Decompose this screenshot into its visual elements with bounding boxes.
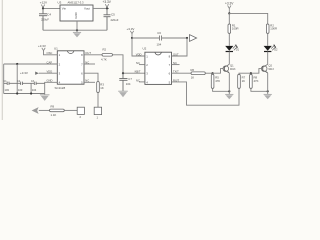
wire to R1 (228, 13, 230, 24)
node dot (131, 37, 133, 39)
pin 7 NC stub (172, 64, 180, 66)
wire VDD drop (132, 38, 145, 56)
wire LED rail (229, 13, 267, 24)
svg-text:1K: 1K (100, 86, 104, 90)
resistor R2 (101, 48, 113, 62)
svg-text:GND: GND (47, 79, 53, 83)
node dot (250, 72, 252, 74)
svg-text:1K: 1K (242, 79, 246, 83)
wire D1 to Q1 collector (228, 52, 230, 65)
svg-text:NC: NC (85, 60, 89, 64)
svg-text:RX/T: RX/T (173, 78, 179, 82)
resistor R5 (pull-down) (211, 74, 220, 88)
svg-text:103: 103 (5, 88, 10, 92)
node A (16, 63, 18, 65)
svg-text:AMS1117-3.3: AMS1117-3.3 (68, 0, 85, 4)
wire OUT pin to R2 (84, 54, 102, 56)
svg-text:VDD: VDD (47, 70, 53, 74)
wire GND pin to ground (45, 82, 58, 93)
wire R9 to pad 2 (64, 109, 77, 111)
svg-text:+3.3V: +3.3V (20, 71, 28, 75)
node dot at C5 top (106, 7, 108, 9)
resistor R9 (50, 105, 65, 118)
power port +3.3V (regulator output) (103, 0, 112, 8)
svg-text:+3.3V: +3.3V (225, 1, 234, 5)
power port +3.3V (LED rail) (225, 1, 234, 13)
node dot at C4 top (42, 7, 44, 9)
svg-text:R6: R6 (191, 68, 195, 72)
wire R1 to D1 (228, 33, 230, 45)
svg-text:C7: C7 (128, 77, 132, 81)
node dot regulator gnd (76, 29, 78, 31)
ground (bottom-left) (40, 94, 50, 101)
wire Vout to +3.3V node (93, 7, 109, 9)
svg-text:NC: NC (173, 61, 177, 65)
capacitor C1 (4, 82, 18, 85)
resistor R3 (97, 82, 105, 93)
svg-text:R9: R9 (51, 105, 55, 109)
wire R7 top to base (239, 69, 262, 75)
pin 2 NC stub (139, 64, 145, 66)
svg-text:OUT: OUT (173, 52, 179, 56)
svg-text:SC1128: SC1128 (55, 86, 66, 90)
capacitor C7 (to gnd) (119, 73, 127, 91)
svg-text:220uF: 220uF (111, 18, 119, 22)
svg-text:9013: 9013 (230, 68, 236, 71)
svg-text:VDD: VDD (136, 52, 142, 56)
resistor R6 (191, 68, 206, 80)
resistor R2b (266, 23, 277, 33)
wire C6 to pin8 node (162, 37, 187, 39)
wire R5 top (212, 73, 214, 74)
wire top to C6 (132, 37, 159, 39)
LED D2 (264, 45, 278, 52)
wire D2 to Q2 collector (267, 52, 269, 65)
svg-text:C6: C6 (157, 31, 161, 35)
svg-text:103: 103 (18, 88, 23, 92)
ground (regulator) (73, 21, 81, 37)
wire pin5 long route (172, 82, 240, 105)
capacitor C3 (31, 82, 45, 85)
svg-text:CAP: CAP (47, 60, 53, 64)
wire rail 3 (30, 83, 32, 93)
svg-text:C4: C4 (47, 13, 51, 17)
wire Q1 emitter down (228, 73, 230, 94)
node dot (30, 92, 32, 94)
node dot (212, 72, 214, 74)
svg-text:NC: NC (85, 79, 89, 83)
svg-text:Vout: Vout (84, 7, 90, 11)
power port +3.3V (U1 VDD) (20, 71, 39, 75)
port arrow (signal out) (190, 35, 197, 42)
wire pin6 to R6 (172, 72, 192, 74)
svg-text:1K: 1K (191, 76, 195, 80)
svg-text:4.7K: 4.7K (101, 58, 107, 62)
wire R5 bottom to emitter node (213, 88, 230, 91)
svg-text:GND: GND (74, 12, 78, 18)
wire pin8 riser (172, 38, 188, 56)
svg-text:U1: U1 (54, 46, 58, 50)
wire CAP pin net (4, 63, 58, 65)
transistor Q1 (223, 64, 236, 73)
svg-text:D2: D2 (274, 48, 278, 52)
ground (Q2) (264, 94, 272, 99)
wire +12V to Vin (43, 7, 60, 9)
wire VDD (39, 72, 58, 74)
svg-text:D1: D1 (236, 48, 240, 52)
wire bottom rail (4, 93, 45, 95)
ground (Q1) (225, 94, 233, 99)
capacitor C4 (39, 8, 47, 30)
IC U2 (143, 47, 172, 85)
wire rail 2 (16, 64, 18, 94)
svg-text:220uF: 220uF (41, 17, 49, 21)
wire R3 to pad (97, 93, 99, 108)
transistor Q2 (261, 64, 274, 73)
svg-text:+3.3V: +3.3V (103, 0, 112, 4)
ground rail under regulator (43, 29, 107, 31)
resistor R1 (228, 23, 239, 33)
pin 5 NC stub (84, 81, 95, 83)
svg-text:U2: U2 (143, 47, 147, 51)
svg-text:TX/T: TX/T (173, 70, 179, 74)
svg-text:C5: C5 (111, 12, 115, 16)
svg-text:KB/T: KB/T (135, 70, 141, 74)
wire base (213, 69, 224, 74)
svg-text:NC: NC (136, 61, 140, 65)
svg-text:100R: 100R (270, 27, 277, 31)
node dot (122, 72, 124, 74)
svg-text:104: 104 (157, 43, 162, 47)
svg-text:104: 104 (126, 82, 131, 86)
svg-text:+3.3V: +3.3V (38, 44, 46, 48)
svg-text:+12V: +12V (40, 1, 48, 5)
svg-text:47K: 47K (215, 79, 220, 83)
node dot (228, 12, 230, 14)
resistor R7 (series) (238, 74, 246, 88)
port arrow (left, input) (32, 107, 39, 114)
svg-text:9013: 9013 (268, 68, 274, 71)
svg-text:1.1K: 1.1K (51, 113, 57, 117)
node dot (186, 37, 188, 39)
svg-text:Vin: Vin (62, 7, 67, 11)
svg-text:OSC: OSC (47, 51, 53, 55)
capacitor C5 (104, 8, 111, 30)
power port +12V (40, 1, 48, 9)
resistor R8 (pull-down) (250, 74, 259, 88)
power port +3.3V (U1 pin1) (38, 44, 46, 51)
pin 4 NC stub (139, 81, 145, 83)
svg-text:OUT: OUT (85, 51, 91, 55)
sheet border (left) (1, 0, 3, 120)
voltage regulator U3 (58, 0, 94, 21)
wire +3.3V to pin1 (44, 51, 58, 55)
svg-text:U3: U3 (58, 0, 62, 4)
capacitor C6 (159, 36, 161, 41)
ground (C7) (118, 91, 128, 97)
svg-text:104: 104 (32, 88, 37, 92)
svg-text:+3.3V: +3.3V (127, 27, 135, 31)
wire arrow to R9 (39, 109, 50, 111)
capacitor C2 (17, 82, 31, 85)
IC U1 SC1128 (54, 46, 84, 89)
svg-text:47K: 47K (254, 79, 259, 83)
svg-text:100R: 100R (232, 27, 239, 31)
wire pin6 to R3 (84, 73, 98, 81)
svg-text:R2: R2 (103, 48, 107, 52)
wire R2 to U2 pin3 (113, 55, 145, 73)
LED D1 (225, 45, 239, 52)
power port +3.3V (U2) (127, 27, 135, 38)
wire R2b to D2 (267, 33, 269, 45)
node dot (16, 92, 18, 94)
pad 1 (94, 107, 101, 119)
wire left rail (3, 64, 5, 94)
wire R8 top (250, 73, 252, 74)
wire R8 bottom to emitter node (251, 88, 268, 91)
wire R6 to Q1 base node (205, 72, 212, 74)
wire Q2 emitter down (267, 73, 269, 94)
pin 7 NC stub (84, 63, 95, 65)
pad 2 (77, 107, 84, 119)
svg-text:NC: NC (136, 78, 140, 82)
